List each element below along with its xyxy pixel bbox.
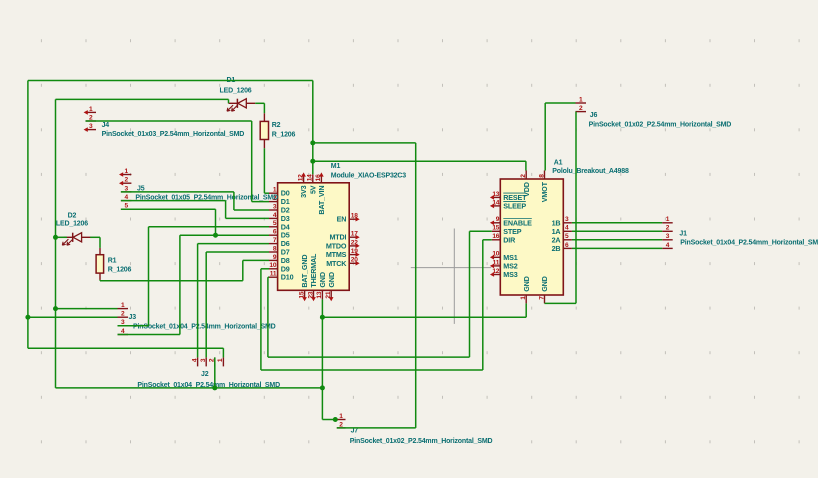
svg-text:R2: R2 xyxy=(272,122,281,129)
M1 pin 9 (D8) xyxy=(269,259,278,261)
svg-text:SLEEP: SLEEP xyxy=(503,201,526,210)
wire xyxy=(121,208,216,210)
svg-text:VDD: VDD xyxy=(522,182,531,197)
svg-text:R1: R1 xyxy=(108,257,117,264)
wire xyxy=(470,230,492,232)
svg-text:VMOT: VMOT xyxy=(540,181,549,202)
pin 3 xyxy=(86,129,97,131)
svg-text:5: 5 xyxy=(565,233,569,240)
svg-text:10: 10 xyxy=(492,251,499,258)
svg-text:J6: J6 xyxy=(590,112,598,119)
svg-text:2: 2 xyxy=(124,177,128,184)
M1 pin 5 (D4) xyxy=(269,226,278,228)
pin 2 xyxy=(118,316,129,318)
svg-text:1: 1 xyxy=(666,216,670,223)
wire xyxy=(86,120,252,122)
svg-text:4: 4 xyxy=(273,212,277,219)
pin 1 xyxy=(337,419,346,421)
wire xyxy=(179,235,181,334)
M1 pin 3 (D2) xyxy=(269,209,278,211)
wire xyxy=(267,277,269,357)
junction xyxy=(320,385,325,390)
wire xyxy=(572,247,662,249)
A1 pin 4 (1A) xyxy=(563,230,572,232)
wire xyxy=(206,251,269,253)
wire xyxy=(90,236,100,238)
svg-text:GND: GND xyxy=(522,276,531,291)
svg-text:Pololu_Breakout_A4988: Pololu_Breakout_A4988 xyxy=(552,168,629,175)
M1 pin 22 (MTDO) xyxy=(349,245,358,247)
M1 pin 16 (BAT_VIN) xyxy=(320,174,322,183)
resistor R2 xyxy=(263,113,265,121)
svg-text:MTDO: MTDO xyxy=(326,241,347,250)
svg-text:3: 3 xyxy=(273,203,277,210)
svg-text:BAT_GND: BAT_GND xyxy=(300,255,309,288)
IC A1 body (Pololu A4988 breakout) xyxy=(500,179,563,295)
svg-text:D2: D2 xyxy=(68,212,77,219)
svg-text:1: 1 xyxy=(217,358,224,362)
M1 pin 1 (D0) xyxy=(269,192,278,194)
A1 pin 5 (2A) xyxy=(563,239,572,241)
junction xyxy=(53,235,58,240)
wire xyxy=(99,237,101,248)
wire xyxy=(264,192,269,194)
A1 pin 11 (MS2) xyxy=(492,265,501,267)
svg-text:1: 1 xyxy=(273,187,277,194)
wire xyxy=(263,103,265,113)
wire xyxy=(197,244,199,358)
svg-text:6: 6 xyxy=(273,229,277,236)
wire xyxy=(261,268,269,270)
module M1 body xyxy=(278,183,350,290)
svg-text:10: 10 xyxy=(269,262,276,269)
wire xyxy=(233,192,235,210)
svg-text:J4: J4 xyxy=(102,122,110,129)
svg-text:13: 13 xyxy=(492,191,499,198)
wire xyxy=(225,201,227,219)
pin 2 xyxy=(576,111,587,113)
wire xyxy=(243,259,269,261)
svg-text:8: 8 xyxy=(538,174,545,178)
A1 pin 2 (VDD) xyxy=(525,171,527,180)
svg-text:2: 2 xyxy=(579,105,583,112)
svg-text:THERMAL: THERMAL xyxy=(309,253,318,288)
wire xyxy=(56,308,118,310)
svg-text:4: 4 xyxy=(666,242,670,249)
pin 4 xyxy=(121,200,131,202)
svg-text:GND: GND xyxy=(327,272,336,287)
wire xyxy=(575,112,577,304)
junction xyxy=(320,315,325,320)
svg-text:1: 1 xyxy=(579,96,583,103)
wire xyxy=(255,102,264,104)
wire xyxy=(55,99,57,388)
svg-text:GND: GND xyxy=(318,272,327,287)
resistor R1 xyxy=(99,248,101,255)
A1 pin 9 (ENABLE) xyxy=(492,222,501,224)
svg-text:BAT_VIN: BAT_VIN xyxy=(317,186,326,215)
wire xyxy=(263,148,265,193)
J2 pin 4 xyxy=(197,357,199,366)
svg-text:21: 21 xyxy=(325,291,332,298)
wire xyxy=(28,316,118,318)
wire xyxy=(228,99,230,103)
wire xyxy=(121,191,234,193)
wire xyxy=(261,369,483,371)
svg-text:14: 14 xyxy=(307,174,314,181)
pin 2 xyxy=(121,182,131,184)
wire xyxy=(149,226,270,228)
M1 pin 8 (D7) xyxy=(269,251,278,253)
svg-text:J3: J3 xyxy=(129,314,137,321)
M1 pin 7 (D6) xyxy=(269,243,278,245)
wire xyxy=(469,231,471,357)
M1 pin 20 (MTCK) xyxy=(349,262,358,264)
M1 pin 11 (D10) xyxy=(269,276,278,278)
svg-text:15: 15 xyxy=(298,291,305,298)
wire xyxy=(313,160,526,162)
svg-text:5: 5 xyxy=(273,220,277,227)
pin 3 xyxy=(118,325,129,327)
wire xyxy=(205,252,207,357)
M1 pin 13 (GND) xyxy=(321,290,323,299)
svg-text:PinSocket_01x04_P2.54mm_Horizo: PinSocket_01x04_P2.54mm_Horizontal_SMD xyxy=(133,323,276,330)
svg-text:11: 11 xyxy=(493,259,500,266)
svg-text:9: 9 xyxy=(496,216,500,223)
svg-text:22: 22 xyxy=(351,239,358,246)
svg-text:3: 3 xyxy=(565,216,569,223)
wire xyxy=(268,356,470,358)
svg-text:4: 4 xyxy=(565,225,569,232)
A1 pin 10 (MS1) xyxy=(492,256,501,258)
svg-text:1: 1 xyxy=(124,168,128,175)
M1 pin 10 (D9) xyxy=(269,268,278,270)
M1 pin 21 (GND) xyxy=(330,290,332,299)
svg-text:17: 17 xyxy=(351,231,358,238)
M1 pin 15 (BAT_GND) xyxy=(304,290,306,299)
svg-text:23: 23 xyxy=(307,291,314,298)
junction xyxy=(25,315,30,320)
wire xyxy=(28,347,224,349)
wire xyxy=(56,387,323,389)
svg-text:3V3: 3V3 xyxy=(299,185,308,197)
svg-text:6: 6 xyxy=(565,242,569,249)
svg-text:PinSocket_01x04_P2.54mm_Horizo: PinSocket_01x04_P2.54mm_Horizontal_SMD xyxy=(680,240,818,247)
pin 2 xyxy=(86,120,97,122)
A1 pin 6 (2B) xyxy=(563,247,572,249)
wire xyxy=(222,348,224,357)
pin 1 xyxy=(86,111,97,113)
svg-text:16: 16 xyxy=(492,233,499,240)
A1 pin 3 (1B) xyxy=(563,222,572,224)
wire xyxy=(198,243,269,245)
editor crosshair cursor xyxy=(453,229,455,324)
svg-text:R_1206: R_1206 xyxy=(272,132,296,139)
wire xyxy=(313,142,416,144)
pin 3 xyxy=(662,239,673,241)
LED D2 xyxy=(64,236,73,238)
wire xyxy=(337,427,416,429)
wire xyxy=(28,80,313,82)
A1 pin 14 (SLEEP) xyxy=(492,205,501,207)
svg-text:MS3: MS3 xyxy=(503,270,517,279)
svg-text:16: 16 xyxy=(315,174,322,181)
wire xyxy=(148,227,150,326)
svg-text:2B: 2B xyxy=(552,244,561,253)
wire xyxy=(572,230,662,232)
pin 5 xyxy=(121,208,131,210)
A1 pin 15 (STEP) xyxy=(492,230,501,232)
pin 2 xyxy=(662,230,673,232)
svg-text:1: 1 xyxy=(89,106,93,113)
svg-text:14: 14 xyxy=(492,199,499,206)
wire xyxy=(118,325,149,327)
svg-text:3: 3 xyxy=(666,233,670,240)
M1 pin 14 (5V) xyxy=(312,174,314,183)
junction xyxy=(310,159,315,164)
svg-text:18: 18 xyxy=(351,213,358,220)
wire xyxy=(525,161,527,170)
M1 pin 2 (D1) xyxy=(269,201,278,203)
svg-text:Module_XIAO-ESP32C3: Module_XIAO-ESP32C3 xyxy=(331,172,406,179)
svg-text:PinSocket_01x02_P2.54mm_Horizo: PinSocket_01x02_P2.54mm_Horizontal_SMD xyxy=(589,121,732,128)
svg-text:R_1206: R_1206 xyxy=(108,267,132,274)
svg-text:M1: M1 xyxy=(331,163,341,170)
wire xyxy=(99,279,101,282)
junction xyxy=(213,233,218,238)
J2 pin 3 xyxy=(205,357,207,366)
svg-text:EN: EN xyxy=(337,215,347,224)
wire xyxy=(483,239,492,241)
wire xyxy=(27,81,29,349)
M1 pin 23 (THERMAL) xyxy=(313,290,315,299)
wire xyxy=(572,239,662,241)
pin 1 xyxy=(121,174,131,176)
J2 pin 1 xyxy=(222,357,224,366)
M1 pin 19 (MTMS) xyxy=(349,254,358,256)
wire xyxy=(545,302,577,304)
wire xyxy=(180,234,269,236)
svg-text:12: 12 xyxy=(492,268,499,275)
pin 1 xyxy=(118,308,129,310)
pin 3 xyxy=(121,191,131,193)
M1 pin 18 (EN) xyxy=(349,218,358,220)
svg-text:9: 9 xyxy=(273,254,277,261)
M1 pin 6 (D5) xyxy=(269,234,278,236)
svg-text:MTDI: MTDI xyxy=(329,233,346,242)
wire xyxy=(215,209,217,235)
wire xyxy=(214,357,216,388)
wire xyxy=(242,260,244,280)
svg-text:13: 13 xyxy=(316,291,323,298)
svg-text:1: 1 xyxy=(339,413,343,420)
wire xyxy=(118,334,180,336)
wire xyxy=(226,217,269,219)
wire xyxy=(56,98,229,100)
M1 pin 12 (3V3) xyxy=(303,174,305,183)
junction xyxy=(53,306,58,311)
svg-text:GND: GND xyxy=(540,276,549,291)
svg-text:DIR: DIR xyxy=(503,235,516,244)
svg-text:7: 7 xyxy=(273,237,277,244)
svg-text:2: 2 xyxy=(121,311,125,318)
wire xyxy=(312,81,314,175)
wire xyxy=(100,280,243,282)
M1 pin 17 (MTDI) xyxy=(349,236,358,238)
wire xyxy=(415,143,417,428)
pin 4 xyxy=(118,334,129,336)
A1 pin 1 (GND) xyxy=(525,295,527,303)
svg-text:MTCK: MTCK xyxy=(326,259,347,268)
svg-text:PinSocket_01x02_P2.54mm_Horizo: PinSocket_01x02_P2.54mm_Horizontal_SMD xyxy=(350,438,493,445)
wire xyxy=(322,316,526,318)
wire xyxy=(322,419,336,421)
svg-text:D10: D10 xyxy=(281,273,294,282)
wire xyxy=(260,269,262,370)
svg-text:12: 12 xyxy=(297,174,304,181)
J2 pin 2 xyxy=(214,357,216,366)
svg-text:15: 15 xyxy=(492,225,499,232)
A1 pin 8 (VMOT) xyxy=(544,171,546,180)
svg-text:LED_1206: LED_1206 xyxy=(220,87,252,94)
M1 pin 4 (D3) xyxy=(269,217,278,219)
wire xyxy=(482,240,484,370)
wire xyxy=(234,209,269,211)
svg-text:1: 1 xyxy=(121,302,125,309)
junction xyxy=(310,140,315,145)
junction xyxy=(212,385,217,390)
A1 pin 16 (DIR) xyxy=(492,239,501,241)
svg-text:3: 3 xyxy=(200,358,207,362)
wire xyxy=(544,103,546,171)
wire xyxy=(56,236,67,238)
A1 pin 12 (MS3) xyxy=(492,274,501,276)
wire xyxy=(251,121,253,202)
svg-text:2: 2 xyxy=(666,225,670,232)
svg-text:7: 7 xyxy=(538,296,545,300)
svg-text:20: 20 xyxy=(351,257,358,264)
svg-text:8: 8 xyxy=(273,245,277,252)
svg-text:J2: J2 xyxy=(201,371,209,378)
wire xyxy=(252,201,269,203)
A1 pin 13 (RESET) xyxy=(492,196,501,198)
svg-text:3: 3 xyxy=(89,123,93,130)
svg-text:2: 2 xyxy=(520,174,527,178)
LED D1 xyxy=(229,102,238,104)
svg-text:A1: A1 xyxy=(554,159,563,166)
pin 2 xyxy=(337,427,346,429)
wire xyxy=(321,299,323,419)
junction xyxy=(333,417,338,422)
pin 4 xyxy=(662,247,673,249)
pin 1 xyxy=(576,102,587,104)
pin 1 xyxy=(662,222,673,224)
wire xyxy=(121,200,226,202)
svg-text:4: 4 xyxy=(191,358,198,362)
svg-text:1: 1 xyxy=(520,296,527,300)
svg-text:LED_1206: LED_1206 xyxy=(56,221,88,228)
svg-text:PinSocket_01x03_P2.54mm_Horizo: PinSocket_01x03_P2.54mm_Horizontal_SMD xyxy=(102,131,245,138)
svg-text:J1: J1 xyxy=(679,230,687,237)
wire xyxy=(525,303,527,317)
svg-text:MTMS: MTMS xyxy=(326,250,347,259)
wire xyxy=(572,222,662,224)
A1 pin 7 (GND) xyxy=(544,295,546,303)
wire xyxy=(268,276,269,278)
wire xyxy=(545,102,575,104)
svg-text:11: 11 xyxy=(270,271,277,278)
svg-text:19: 19 xyxy=(351,248,358,255)
